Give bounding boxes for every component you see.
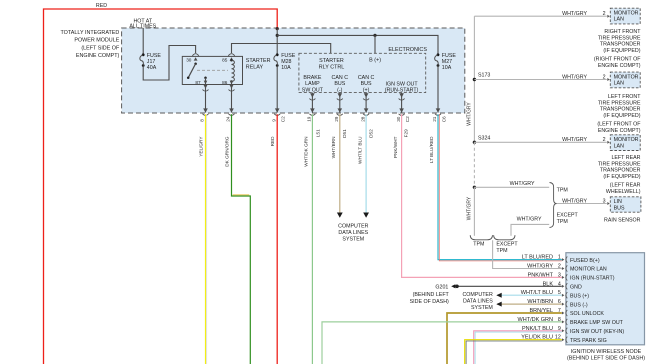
ground G201 symbol — [455, 285, 459, 289]
relay coil — [232, 60, 235, 81]
svg-text:SW OUT: SW OUT — [302, 87, 324, 93]
IWN pin 9 IGN SW OUT (KEY-IN) — [562, 329, 565, 332]
ignition wireless node box — [566, 253, 645, 345]
svg-text:9: 9 — [271, 119, 276, 122]
connector at relay pin 30 — [192, 54, 198, 56]
wire WHT/GRY EXCEPT TPM branch — [511, 224, 549, 235]
junction TPM tap — [473, 186, 476, 189]
svg-text:PNK/WHT: PNK/WHT — [528, 272, 554, 278]
relay starter relay box — [182, 56, 242, 84]
svg-text:IGN SW OUT (KEY-IN): IGN SW OUT (KEY-IN) — [570, 329, 624, 335]
svg-text:TIRE PRESSURE: TIRE PRESSURE — [598, 161, 641, 167]
svg-text:87: 87 — [195, 80, 201, 85]
arrow data lines pin 5 — [496, 293, 501, 298]
connector right front transponder — [607, 15, 610, 18]
connector at relay pin 85 — [228, 54, 234, 56]
connector below electronics x=339.8 — [338, 93, 343, 97]
svg-text:FUSE: FUSE — [147, 53, 162, 59]
svg-text:(LEFT REAR: (LEFT REAR — [610, 183, 641, 189]
svg-text:TIRE PRESSURE: TIRE PRESSURE — [598, 35, 641, 41]
wire WHT/GRY top to right front transponder — [474, 15, 606, 17]
svg-text:WHT/DK GRN: WHT/DK GRN — [304, 137, 309, 167]
svg-text:28: 28 — [360, 116, 365, 122]
arrow WHT/BRN to data lines — [337, 213, 343, 218]
wire WHT/GRY main vertical — [473, 16, 475, 142]
svg-text:S324: S324 — [478, 136, 490, 142]
IWN pin 2 MONITOR LAN — [562, 267, 565, 270]
svg-text:2: 2 — [603, 137, 606, 143]
connector TIPM pin 30 — [399, 108, 404, 112]
wire YEL/DK BLU dark tracer — [466, 341, 562, 364]
svg-text:SYSTEM: SYSTEM — [342, 237, 364, 243]
svg-text:BUS: BUS — [614, 205, 625, 211]
svg-text:LEFT FRONT: LEFT FRONT — [608, 94, 641, 100]
wire WHT/LT BLU to IWN pin 5 — [497, 294, 562, 296]
monitor lan box left front — [610, 72, 640, 88]
wire YEL/GRY pin 8 — [205, 114, 207, 364]
relay coil bottom — [230, 80, 233, 83]
svg-text:G201: G201 — [435, 284, 448, 290]
wire WHT/BRN to IWN pin 6 — [497, 303, 562, 305]
connector TIPM pin 19 — [310, 108, 315, 112]
wire WHT/GRY below TPM tap — [473, 187, 475, 236]
svg-text:BUS: BUS — [334, 81, 345, 87]
svg-text:LT BLU/RED: LT BLU/RED — [522, 255, 553, 261]
svg-text:STARTER: STARTER — [246, 58, 271, 64]
svg-text:STARTER: STARTER — [319, 58, 344, 64]
svg-text:3: 3 — [603, 198, 606, 204]
svg-text:WHT/GRY: WHT/GRY — [562, 137, 587, 143]
junction dot B+ rail — [276, 34, 279, 37]
IWN pin 1 FUSED B(+) — [562, 258, 565, 261]
svg-text:L51: L51 — [316, 129, 321, 137]
relay switch contact 30 — [194, 62, 197, 64]
svg-text:(IF EQUIPPED): (IF EQUIPPED) — [603, 113, 640, 119]
connector left front transponder — [607, 78, 610, 81]
svg-text:3: 3 — [558, 272, 561, 278]
svg-text:21: 21 — [432, 116, 437, 122]
svg-text:TRANSPONDER: TRANSPONDER — [600, 107, 641, 113]
monitor lan box right front — [610, 8, 640, 24]
svg-text:CAN C: CAN C — [358, 75, 375, 81]
svg-text:BUS (+): BUS (+) — [570, 293, 589, 299]
wire relay 87 to pin 8 — [205, 85, 207, 113]
wire electronics output x=401.6 — [401, 93, 403, 113]
svg-text:29: 29 — [334, 116, 339, 122]
svg-text:IGN (RUN-START): IGN (RUN-START) — [570, 276, 615, 282]
wire WHT/BRN pin 29 — [339, 114, 341, 213]
svg-text:COMPUTER: COMPUTER — [462, 292, 492, 298]
svg-text:TPM: TPM — [557, 219, 568, 225]
svg-text:WHT/GRY: WHT/GRY — [562, 74, 587, 80]
wire WHT/GRY to left front transponder — [474, 79, 606, 81]
svg-text:(BEHIND LEFT SIDE OF DASH): (BEHIND LEFT SIDE OF DASH) — [567, 356, 645, 362]
connector left rear transponder — [607, 141, 610, 144]
fuse M27 — [437, 53, 440, 56]
svg-text:SIDE OF DASH): SIDE OF DASH) — [410, 299, 449, 305]
IWN pin 7 SOL UNLOCK — [562, 312, 565, 315]
svg-text:MONITOR: MONITOR — [614, 74, 639, 80]
svg-text:WHT/GRY: WHT/GRY — [562, 11, 587, 17]
svg-text:CAN C: CAN C — [332, 75, 349, 81]
svg-text:LAMP: LAMP — [305, 81, 320, 87]
wire relay 86 to pin 24 — [231, 85, 233, 113]
connector below relay 87 — [203, 84, 208, 88]
connector TIPM pin 21 — [436, 108, 441, 112]
wire PNK/LT BLU to IWN pin 9 — [474, 331, 562, 364]
svg-text:LEFT REAR: LEFT REAR — [611, 155, 640, 161]
junction red feed at TIPM edge — [276, 27, 279, 30]
relay pin 87 exit arrow — [204, 81, 208, 85]
svg-text:TPM: TPM — [473, 242, 484, 248]
svg-text:(RIGHT FRONT OF: (RIGHT FRONT OF — [594, 57, 641, 63]
svg-text:F29: F29 — [404, 129, 409, 137]
svg-text:(+): (+) — [363, 87, 370, 93]
wire BLK G201 to IWN pin 4 — [457, 285, 562, 287]
svg-text:M27: M27 — [442, 59, 452, 65]
wire YEL/DK BLU to IWN pin 12 — [465, 340, 562, 364]
wire LT BLU/RED pin 21 to IWN pin 1 — [438, 114, 562, 259]
wire WHT/DK GRN to IWN pin 8 — [322, 322, 562, 364]
wire B+ main vertical — [276, 29, 278, 55]
relay switch arm end — [187, 77, 190, 80]
wire PNK/WHT pin 30 to IWN pin 3 — [402, 114, 562, 277]
brace EXCEPT TPM bottom — [494, 235, 515, 240]
svg-text:C6: C6 — [441, 116, 446, 122]
svg-text:WHT/GRY: WHT/GRY — [527, 264, 553, 270]
wire DK GRN/ORG orange tracer — [233, 194, 250, 196]
svg-text:TPM: TPM — [557, 187, 568, 193]
svg-text:BUS (-): BUS (-) — [570, 302, 588, 308]
relay coil top — [230, 59, 233, 62]
svg-text:PNK/WHT: PNK/WHT — [393, 136, 398, 158]
svg-text:GND: GND — [570, 285, 582, 291]
wire B(+) drop to electronics — [374, 35, 376, 53]
monitor lan box left rear — [610, 135, 640, 151]
wire DK GRN/ORG pin 24 — [232, 114, 251, 364]
svg-text:COMPUTER: COMPUTER — [338, 224, 368, 230]
svg-text:MONITOR: MONITOR — [614, 137, 639, 143]
lin bus box rain sensor — [610, 197, 641, 212]
svg-text:M28: M28 — [281, 59, 291, 65]
relay pin 86 exit arrow — [230, 81, 234, 85]
wire YEL/GRY gray tracer — [206, 114, 208, 364]
svg-text:(IF EQUIPPED): (IF EQUIPPED) — [603, 174, 640, 180]
svg-text:RAIN SENSOR: RAIN SENSOR — [604, 218, 641, 224]
svg-text:TOTALLY INTEGRATED: TOTALLY INTEGRATED — [60, 30, 119, 36]
svg-text:(LEFT FRONT OF: (LEFT FRONT OF — [597, 121, 641, 127]
svg-text:D51: D51 — [342, 129, 347, 138]
svg-text:MONITOR: MONITOR — [614, 10, 639, 16]
svg-text:YEL/GRY: YEL/GRY — [198, 136, 203, 157]
svg-text:LAN: LAN — [614, 17, 624, 23]
svg-text:SOL UNLOCK: SOL UNLOCK — [570, 311, 604, 317]
svg-text:FUSE: FUSE — [281, 53, 296, 59]
svg-text:ENGINE COMPT): ENGINE COMPT) — [598, 63, 641, 69]
connector TIPM pin 8 — [203, 108, 208, 112]
wire fuse J17 to relay pin 30 — [143, 46, 195, 81]
svg-text:EXCEPT: EXCEPT — [557, 213, 579, 219]
svg-text:WHT/BRN: WHT/BRN — [331, 137, 336, 159]
svg-text:RIGHT FRONT: RIGHT FRONT — [604, 29, 641, 35]
svg-text:IGN SW OUT: IGN SW OUT — [386, 81, 419, 87]
svg-text:ENGINE COMPT): ENGINE COMPT) — [76, 53, 120, 59]
svg-text:EXCEPT: EXCEPT — [496, 241, 518, 247]
svg-text:C2: C2 — [281, 116, 286, 122]
wire relay pin 85 to starter rly ctrl — [232, 44, 331, 54]
svg-text:SYSTEM: SYSTEM — [471, 305, 493, 311]
svg-text:TPM: TPM — [496, 248, 507, 254]
wire WHT/GRY to left rear transponder — [474, 141, 606, 143]
connector below relay 86 — [229, 84, 234, 88]
svg-text:2: 2 — [603, 74, 606, 80]
IWN pin 8 BRAKE LMP SW OUT — [562, 320, 565, 323]
svg-text:RED: RED — [96, 3, 107, 9]
svg-text:POWER MODULE: POWER MODULE — [74, 38, 119, 44]
svg-text:DK GRN/ORG: DK GRN/ORG — [224, 136, 229, 167]
splice S173 — [473, 78, 476, 81]
connector TIPM pin 9 — [275, 108, 280, 112]
wire WHT/LT BLU pin 28 — [365, 114, 367, 213]
relay linkage dashed — [197, 69, 228, 71]
relay switch arm — [188, 64, 195, 78]
IWN pin 6 BUS (-) — [562, 303, 565, 306]
svg-text:(IF EQUIPPED): (IF EQUIPPED) — [603, 48, 640, 54]
svg-text:B (+): B (+) — [369, 58, 381, 64]
wire fuse M28 to pin 9 — [276, 66, 278, 113]
svg-text:30: 30 — [396, 116, 401, 122]
wire WHT/GRY TPM branch — [474, 186, 549, 188]
svg-text:IGNITION WIRELESS NODE: IGNITION WIRELESS NODE — [571, 349, 642, 355]
fuse M28 — [276, 53, 279, 56]
wire WHT/GRY to rain sensor — [557, 203, 607, 205]
svg-text:2: 2 — [603, 11, 606, 17]
svg-text:WHT/GRY: WHT/GRY — [467, 196, 473, 220]
svg-text:D52: D52 — [368, 129, 373, 138]
brace merge TPM / EXCEPT TPM to rain sensor — [550, 183, 557, 228]
wire electronics output x=366.1 — [365, 93, 367, 113]
svg-text:10A: 10A — [442, 65, 452, 71]
fuse J17 — [142, 53, 145, 56]
svg-text:85: 85 — [222, 58, 228, 63]
svg-text:(BEHIND LEFT: (BEHIND LEFT — [413, 292, 450, 298]
svg-text:FUSE: FUSE — [442, 53, 457, 59]
connector below electronics x=312.4 — [310, 93, 315, 97]
svg-text:MONITOR LAN: MONITOR LAN — [570, 267, 607, 273]
arrow WHT/LT BLU to data lines — [363, 213, 369, 218]
svg-text:ELECTRONICS: ELECTRONICS — [388, 47, 427, 53]
relay contact 87 — [204, 77, 207, 80]
svg-text:DATA LINES: DATA LINES — [338, 230, 368, 236]
svg-text:TRANSPONDER: TRANSPONDER — [600, 42, 641, 48]
electronics inner box (dashed) — [299, 53, 426, 92]
wire WHT/GRY dashed variant segment — [473, 142, 475, 187]
IWN pin 12 TRS PARK SIG — [562, 338, 565, 341]
wire WHT/GRY merged to IWN pin 2 — [493, 240, 562, 268]
svg-text:BUS: BUS — [361, 81, 372, 87]
IWN pin 4 GND — [562, 285, 565, 288]
svg-text:LAN: LAN — [614, 81, 624, 87]
wire fuse M27 to pin 21 — [437, 66, 439, 113]
svg-text:30: 30 — [186, 58, 192, 63]
svg-text:WHT/GRY: WHT/GRY — [517, 217, 542, 223]
svg-text:WHT/GRY: WHT/GRY — [510, 181, 535, 187]
arrow data lines pin 6 — [496, 302, 501, 307]
brace TPM bottom — [470, 235, 492, 240]
svg-text:WHT/GRY: WHT/GRY — [467, 102, 473, 126]
svg-text:LT BLU/RED: LT BLU/RED — [429, 136, 434, 163]
svg-text:2: 2 — [558, 264, 561, 270]
svg-text:TRS PARK SIG: TRS PARK SIG — [570, 338, 607, 344]
relay pin 87 wire — [205, 78, 207, 85]
splice S324 — [473, 141, 476, 144]
svg-text:RED: RED — [270, 136, 275, 147]
svg-text:40A: 40A — [147, 65, 157, 71]
IWN pin 5 BUS (+) — [562, 294, 565, 297]
connector TIPM pin 24 — [229, 108, 234, 112]
svg-text:LAN: LAN — [614, 143, 624, 149]
wire RED battery feed (left border) — [44, 9, 278, 364]
svg-text:86: 86 — [222, 80, 228, 85]
connector below electronics x=366.1 — [364, 93, 369, 97]
wire LT BLU/RED red tracer — [439, 114, 562, 261]
svg-text:1: 1 — [558, 255, 561, 261]
svg-text:(-): (-) — [337, 87, 343, 93]
svg-text:19: 19 — [307, 116, 312, 122]
svg-text:WHT/LT BLU: WHT/LT BLU — [357, 136, 362, 164]
svg-text:TIRE PRESSURE: TIRE PRESSURE — [598, 100, 641, 106]
svg-text:WHEELWELL): WHEELWELL) — [606, 189, 641, 195]
svg-text:BRAKE LMP SW OUT: BRAKE LMP SW OUT — [570, 320, 624, 326]
wire electronics output x=339.8 — [339, 93, 341, 113]
svg-text:(LEFT SIDE OF: (LEFT SIDE OF — [81, 45, 120, 51]
wire PNK/LT BLU blue tracer — [475, 332, 562, 364]
connector TIPM pin 29 — [338, 108, 343, 112]
junction dot B(+) tap — [373, 34, 376, 37]
svg-text:LIN: LIN — [614, 199, 622, 205]
TIPM module box (dashed) — [122, 28, 465, 113]
wire RED pin 9 — [276, 114, 278, 364]
relay pin 86 wire — [231, 82, 233, 85]
svg-text:J17: J17 — [147, 59, 156, 65]
svg-text:ENGINE COMPT): ENGINE COMPT) — [598, 128, 641, 134]
svg-text:RELAY: RELAY — [246, 65, 264, 71]
IWN pin 3 IGN (RUN-START) — [562, 276, 565, 279]
connector TIPM pin 28 — [364, 108, 369, 112]
connector below electronics x=401.6 — [399, 93, 404, 97]
svg-text:TRANSPONDER: TRANSPONDER — [600, 168, 641, 174]
svg-text:10A: 10A — [281, 65, 291, 71]
svg-text:BRAKE: BRAKE — [303, 75, 321, 81]
wire fuse J17 feed — [142, 28, 144, 55]
svg-text:24: 24 — [226, 116, 231, 122]
svg-text:FUSED B(+): FUSED B(+) — [570, 258, 600, 264]
svg-text:WHT/GRY: WHT/GRY — [562, 198, 587, 204]
svg-text:S173: S173 — [478, 73, 490, 79]
wire B+ rail to fuse M27 — [277, 35, 438, 54]
wire WHT/DK GRN pin 19 — [311, 114, 313, 364]
connector rain sensor — [607, 202, 610, 205]
svg-text:8: 8 — [200, 119, 205, 122]
wire BRN/YEL to IWN pin 7 — [447, 313, 562, 364]
wire electronics output x=312.4 — [311, 93, 313, 113]
svg-text:DATA LINES: DATA LINES — [463, 298, 493, 304]
svg-text:RLY CTRL: RLY CTRL — [319, 65, 345, 71]
svg-text:C2: C2 — [405, 116, 410, 122]
